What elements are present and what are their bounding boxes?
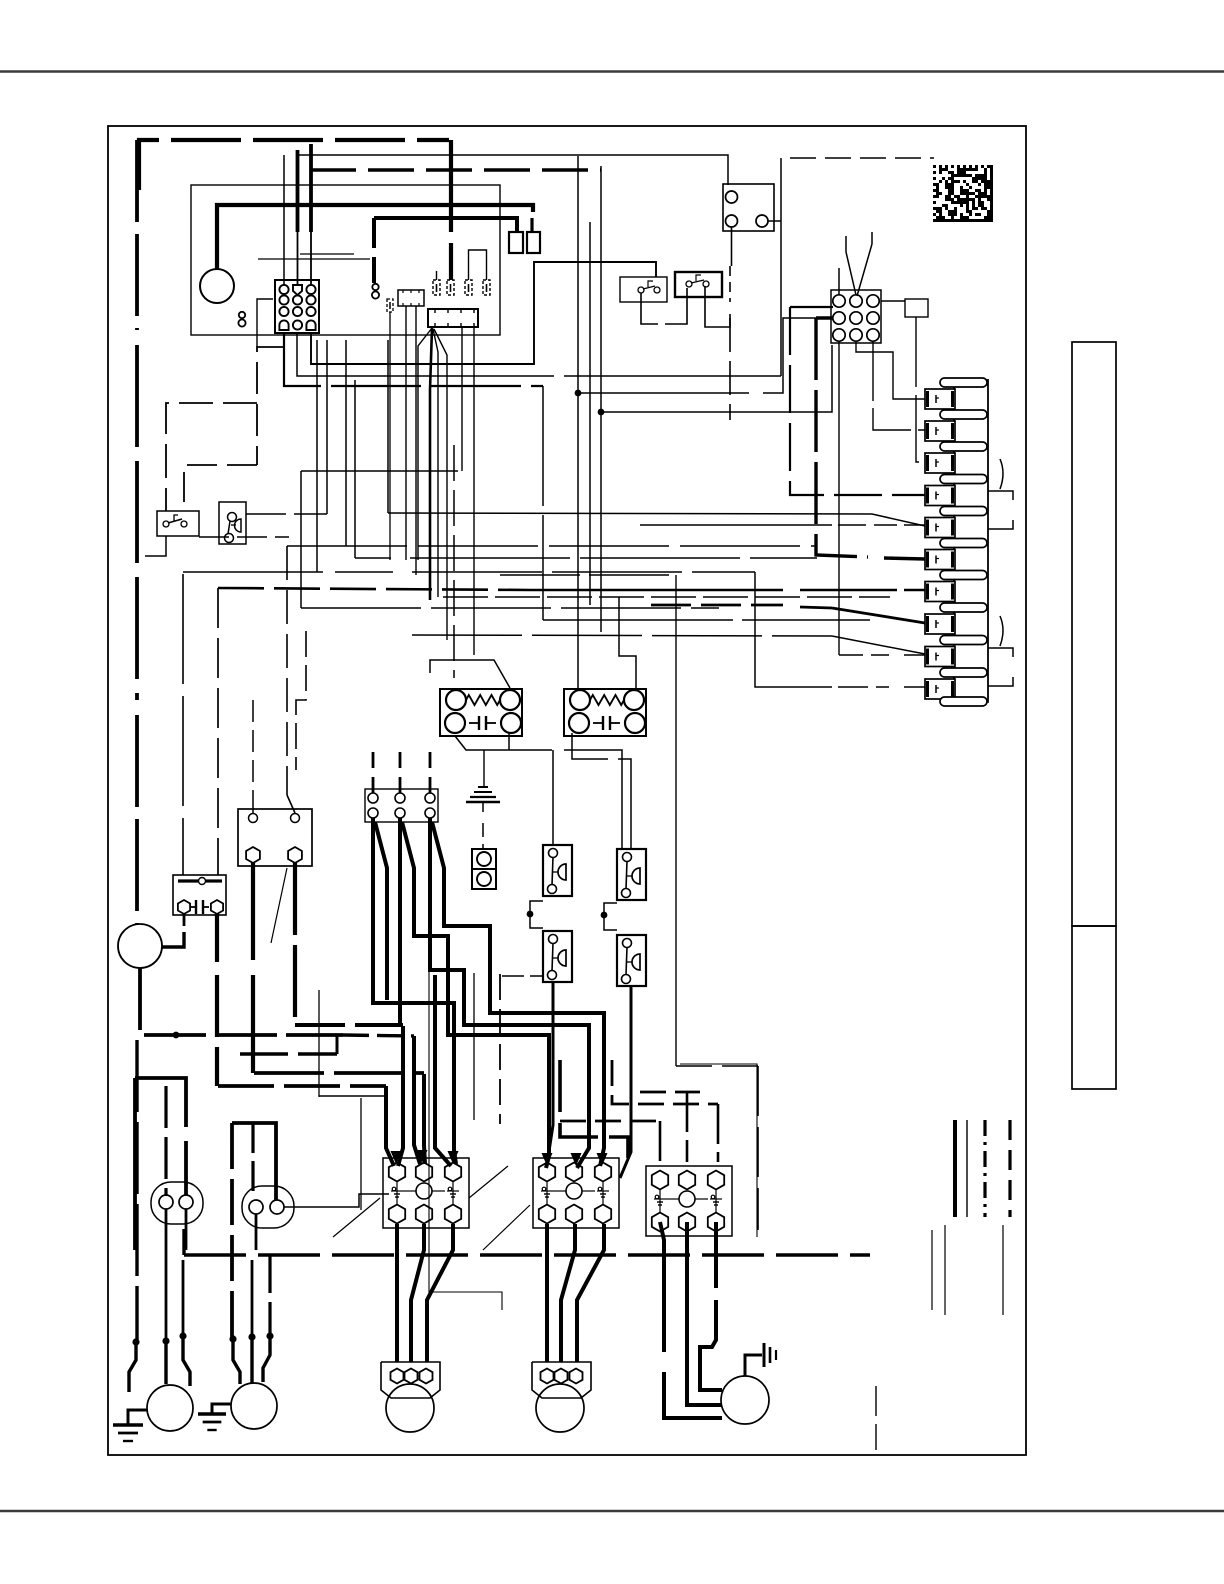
wire: [729, 318, 731, 420]
chassis ground: [478, 786, 488, 788]
wire: [714, 1222, 718, 1288]
connector plug P2: [831, 290, 881, 343]
wire: [687, 1222, 722, 1405]
wire: [577, 156, 579, 393]
wire: [199, 536, 289, 538]
condenser motor M1: [147, 1385, 193, 1431]
wire: [449, 140, 453, 280]
wire: [577, 1224, 604, 1362]
wire: [343, 1035, 414, 1036]
wire: [600, 412, 602, 632]
faston plug 9: [940, 636, 987, 645]
wire: [354, 380, 356, 558]
leader: [1000, 616, 1003, 646]
thin vertical: [473, 973, 475, 1120]
faston plug 4: [940, 475, 987, 484]
wire: [139, 140, 449, 190]
faston plug 7: [940, 571, 987, 580]
faston plug 3: [940, 442, 987, 451]
leader: [333, 1198, 380, 1237]
wire: [552, 750, 554, 845]
wire: [543, 619, 870, 621]
wire: [183, 1336, 190, 1386]
fuse F2: [527, 232, 540, 253]
wire: [589, 222, 591, 605]
wire: [430, 818, 589, 1168]
wire: [310, 168, 601, 172]
wire: [283, 155, 285, 285]
wire: [620, 986, 631, 1178]
wire: [183, 571, 393, 573]
wire: [499, 974, 501, 1124]
outdoor fan motor M5: [721, 1376, 769, 1424]
side lug box: [905, 299, 928, 317]
wire: [443, 596, 890, 598]
leader: [271, 868, 287, 943]
wire: [309, 144, 313, 232]
contactor CC3: [646, 1166, 732, 1236]
wire: [402, 822, 549, 1168]
wire: [301, 470, 458, 472]
wire: [482, 823, 484, 849]
wire: [184, 465, 257, 511]
wire: [295, 1023, 403, 1027]
wire: [252, 700, 254, 786]
wire: [731, 227, 733, 266]
wire: [530, 901, 543, 928]
page top rule: [0, 70, 1224, 73]
wire: [545, 1224, 549, 1362]
wire: [287, 545, 817, 547]
wire: [268, 1255, 271, 1336]
wire: [405, 306, 407, 560]
wire: [455, 736, 552, 750]
wire: [430, 660, 510, 688]
bobbin symbol: [372, 284, 379, 299]
wire: [217, 205, 533, 270]
wire: [251, 1123, 254, 1196]
wire: [263, 1336, 270, 1382]
node: [173, 1032, 180, 1039]
arrowhead: [391, 1151, 402, 1164]
wire: [450, 253, 452, 280]
wire: [240, 1052, 337, 1056]
wire: [215, 914, 219, 962]
node A: [575, 390, 582, 397]
wire: [311, 262, 656, 364]
RC block RC1: [440, 689, 522, 736]
wire: [300, 471, 302, 608]
jumper bracket upper: [988, 491, 1013, 500]
wire: [164, 1086, 167, 1196]
wire: [601, 345, 832, 412]
wire: [184, 1253, 870, 1256]
wire: [386, 1086, 394, 1166]
switch S4 box: [675, 272, 722, 297]
wire: [284, 1194, 389, 1207]
arrowhead: [542, 1153, 553, 1166]
bobbin symbol: [238, 312, 245, 327]
wire: [561, 1224, 575, 1362]
compressor M3: [386, 1384, 434, 1432]
notes panel upper rectangle: [1072, 342, 1116, 926]
wire: [675, 575, 677, 1066]
wire: [217, 588, 219, 875]
wire: [218, 1084, 386, 1088]
wire: [250, 1337, 253, 1384]
wire: [387, 340, 389, 513]
wire: [140, 968, 343, 1035]
junction dots row: [132, 1338, 139, 1345]
faston plug 5: [940, 507, 987, 516]
wire: [871, 232, 873, 244]
wire: [395, 1224, 399, 1362]
wire: [287, 795, 295, 813]
wire: [135, 1040, 138, 1342]
switch S3 box: [620, 277, 667, 302]
arrowhead: [448, 1151, 459, 1164]
leader: [483, 1205, 530, 1250]
wire: [434, 329, 447, 640]
relay K2 box: [723, 184, 774, 231]
field wiring boundary 3: [680, 1064, 757, 1237]
ground: [212, 1404, 231, 1414]
wire: [135, 1078, 186, 1127]
wire: [846, 252, 856, 295]
wire: [424, 1074, 425, 1164]
wire: [838, 268, 840, 295]
wire: [389, 312, 391, 560]
wire: [284, 333, 543, 386]
wire: [293, 863, 297, 1024]
wire: [252, 790, 254, 813]
wire: [780, 158, 782, 376]
wire: [296, 150, 300, 232]
wire: [473, 327, 475, 655]
terminal strip TB2 spine: [954, 380, 988, 702]
leader: [469, 1166, 508, 1198]
ground: [745, 1355, 762, 1376]
wire: [600, 166, 602, 412]
wire: [436, 271, 438, 280]
wire: [326, 340, 328, 514]
wire: [129, 1342, 136, 1392]
wire: [182, 1260, 185, 1338]
contactor CC2: [533, 1158, 619, 1228]
arrowhead: [417, 1150, 428, 1163]
condenser motor M2: [231, 1383, 277, 1429]
high pressure switch HPS2: [617, 849, 646, 900]
thin vertical: [360, 1098, 362, 1210]
wire: [530, 218, 533, 232]
faston plug 2: [940, 410, 987, 419]
arrowhead: [571, 1153, 582, 1166]
faston plug 8: [940, 603, 987, 612]
legend thin line: [966, 1120, 968, 1217]
wire: [301, 607, 719, 609]
wire: [414, 1036, 420, 1164]
wire: [412, 635, 832, 636]
wire: [483, 750, 485, 786]
ground: [128, 1410, 147, 1425]
fuse F1: [509, 232, 523, 253]
wire: [578, 392, 749, 394]
wire: [705, 286, 730, 327]
wire: [641, 293, 658, 324]
wire: [164, 1341, 167, 1384]
wire: [398, 818, 402, 1024]
jumper bracket lower: [988, 648, 1013, 657]
wire: [435, 975, 451, 1166]
compressor M4: [536, 1384, 584, 1432]
terminal strip TB1: [428, 309, 478, 327]
switch S1 box: [157, 511, 199, 536]
contactor CC1: [383, 1158, 469, 1228]
wire: [612, 1060, 718, 1104]
wire: [388, 513, 925, 526]
wire: [542, 386, 544, 620]
wire: [453, 445, 455, 678]
wire: [729, 266, 731, 302]
pin header pin: [387, 299, 393, 312]
wire: [916, 317, 925, 462]
wire: [873, 341, 925, 430]
node B: [598, 409, 605, 416]
arrowhead: [597, 1153, 608, 1166]
wire: [355, 557, 391, 559]
wire: [145, 536, 166, 556]
compressor M4 terminal box: [532, 1362, 591, 1398]
wire: [461, 327, 463, 471]
relay K1 box: [398, 290, 424, 306]
wire: [572, 733, 608, 759]
contactor C1 box: [238, 809, 312, 866]
faston plug 6: [940, 539, 987, 548]
wire: [246, 513, 327, 515]
wire: [372, 752, 375, 793]
low pressure switch LPS2: [617, 935, 646, 986]
diagram border frame: [108, 126, 1026, 1455]
wire: [415, 306, 417, 575]
wire: [790, 306, 833, 308]
wire: [577, 393, 579, 690]
wire: [255, 1214, 258, 1250]
wire: [254, 1071, 424, 1075]
wire: [508, 733, 510, 750]
run capacitor RC-A: [151, 1182, 203, 1224]
legend thin line 3: [944, 1225, 946, 1315]
wire: [790, 157, 934, 159]
wire: [300, 253, 354, 255]
wire: [838, 341, 840, 655]
node: [527, 911, 534, 918]
transformer circle: [200, 269, 234, 303]
wire: [162, 932, 184, 947]
wire: [432, 822, 604, 1166]
wire: [297, 333, 781, 376]
legend thin line 4: [1002, 1225, 1004, 1315]
wire: [182, 574, 184, 875]
wire: [660, 1222, 664, 1352]
wire: [135, 140, 139, 330]
wire: [251, 863, 255, 960]
start relay SR box: [173, 875, 226, 915]
wire: [286, 546, 288, 795]
page bottom rule: [0, 1510, 1224, 1513]
wire: [336, 1036, 339, 1054]
motor capacitor circle: [118, 924, 162, 968]
legend thin line 2: [931, 1230, 933, 1310]
wire: [398, 1026, 403, 1166]
wire: [433, 329, 438, 597]
wire: [502, 975, 543, 977]
wire: [297, 155, 728, 185]
wire: [604, 903, 617, 930]
faston plug 10: [940, 668, 987, 677]
wire: [258, 258, 370, 260]
wire: [676, 1065, 758, 1067]
wire: [640, 1091, 700, 1094]
mark: [875, 1386, 877, 1450]
wire: [165, 1209, 168, 1339]
wire: [411, 1224, 424, 1362]
wire: [418, 328, 432, 560]
wire: [183, 914, 186, 926]
wire: [257, 299, 273, 347]
wire: [319, 1095, 386, 1097]
wire: [560, 1060, 628, 1158]
wire: [233, 1339, 240, 1384]
thin vertical: [318, 990, 320, 1097]
wire: [375, 822, 387, 1000]
wire: [430, 328, 432, 600]
wire: [185, 1209, 188, 1250]
wire: [257, 347, 284, 465]
compressor M3 terminal box: [381, 1362, 440, 1398]
faston finger bottom: [940, 697, 987, 706]
wire: [881, 300, 905, 302]
pressure switch S2: [219, 502, 246, 544]
wire: [232, 1123, 276, 1200]
run capacitor RC-B: [242, 1186, 294, 1228]
wire: [345, 340, 347, 546]
wire: [374, 218, 517, 232]
wire: [251, 1260, 254, 1337]
data-matrix barcode: [933, 165, 993, 222]
wire: [500, 574, 676, 576]
high pressure switch HPS1: [543, 845, 572, 896]
field wiring boundary: [429, 952, 502, 1310]
wire: [395, 1328, 397, 1352]
wire: [372, 218, 376, 283]
faston plug 1: [940, 378, 987, 387]
wire: [768, 220, 781, 222]
leader: [1000, 459, 1003, 489]
wire: [469, 250, 487, 280]
wire: [316, 340, 318, 572]
wire: [560, 1120, 660, 1123]
low pressure switch LPS1: [543, 931, 572, 982]
wire: [296, 631, 306, 770]
RC block RC2: [564, 689, 646, 736]
notes panel lower rectangle: [1072, 926, 1116, 1089]
wire: [427, 1224, 453, 1362]
wire: [548, 982, 553, 1158]
wire: [218, 588, 530, 590]
wire: [640, 524, 832, 526]
wire: [373, 818, 456, 1164]
legend dash-dot line: [983, 1120, 986, 1217]
legend thick line: [953, 1120, 957, 1217]
pin header J2 dashed pins: [433, 280, 440, 295]
fuse holder F3: [472, 849, 496, 869]
connector plug P1: [275, 280, 319, 333]
wire: [166, 403, 257, 511]
wire: [816, 316, 833, 319]
node: [601, 912, 608, 919]
wire: [856, 341, 925, 399]
control board outline: [191, 185, 500, 335]
wire: [619, 597, 636, 690]
terminal block TB3: [365, 789, 438, 822]
legend dashed line: [1008, 1120, 1011, 1217]
wire: [651, 604, 783, 607]
wire: [665, 288, 687, 324]
